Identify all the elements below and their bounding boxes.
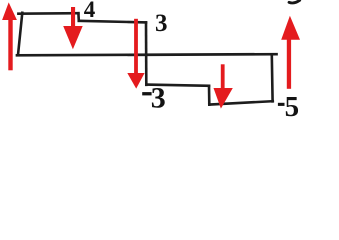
svg-text:5: 5 — [285, 91, 300, 123]
impulse arrow down over level 4 — [71, 7, 75, 28]
wire: left vertical edge — [18, 13, 22, 55]
label -3 minus stroke — [142, 92, 151, 95]
wire: zero axis baseline — [17, 54, 277, 55]
wire: step from -3 down to -5 — [208, 86, 211, 105]
svg-text:3: 3 — [151, 81, 166, 114]
impulse arrow up, far left — [8, 15, 12, 70]
label -5 minus stroke — [278, 103, 285, 106]
impulse arrow down at x=222 — [221, 64, 225, 89]
wire: level +3 segment — [79, 21, 146, 23]
wire: step from 4 down to 3 — [77, 13, 80, 21]
wire: vertical drop from +3 to -3 — [145, 22, 148, 84]
wire: level +4 top segment — [18, 12, 78, 15]
wire: right vertical edge — [270, 55, 273, 102]
impulse arrow down at x=136 — [134, 19, 138, 76]
impulse arrow up, right — [287, 36, 291, 89]
svg-text:4: 4 — [84, 0, 96, 22]
label 5 cut off at top edge — [289, 0, 300, 3]
svg-text:3: 3 — [155, 10, 168, 37]
wire: level -3 segment — [146, 85, 209, 86]
wire: level -5 segment — [209, 101, 272, 104]
